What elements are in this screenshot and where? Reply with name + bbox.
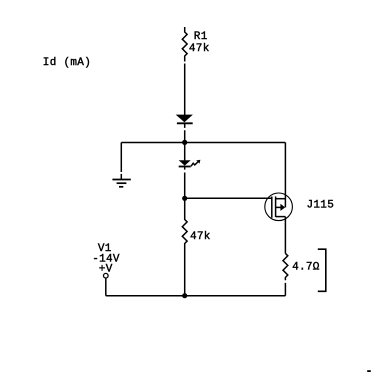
resistor 4.7 ohm <box>283 253 288 295</box>
svg-text:J115: J115 <box>307 200 335 212</box>
label 4.7 ohm <box>292 261 320 273</box>
wire source to 4.7 ohm <box>284 217 286 254</box>
wire gate <box>185 197 272 199</box>
diode D1 <box>176 115 193 124</box>
label Id (mA) <box>43 57 91 69</box>
wire from D1 to top junction <box>184 123 186 142</box>
svg-text:47k: 47k <box>190 231 211 243</box>
LED D2 <box>179 160 201 167</box>
svg-text:47k: 47k <box>189 43 210 55</box>
label 47k of R1 <box>189 43 210 55</box>
label J115 <box>307 200 335 212</box>
wire top horizontal <box>121 142 285 144</box>
wire right vertical drain <box>284 143 286 208</box>
wire from R1 to diode D1 <box>184 64 186 116</box>
wire top junction to LED D2 <box>184 143 186 161</box>
label 47k middle <box>190 231 211 243</box>
bracket marker <box>318 249 326 291</box>
node gate junction <box>182 196 187 201</box>
label R1 <box>194 31 208 43</box>
wire bottom rail <box>106 295 286 297</box>
node top junction <box>182 140 187 145</box>
source V1 labels <box>98 243 112 255</box>
wire to ground <box>120 143 122 180</box>
transistor J115 <box>265 193 293 221</box>
svg-text:4.7Ω: 4.7Ω <box>292 261 320 273</box>
resistor R1 <box>182 27 187 62</box>
source V1 terminal <box>104 273 109 295</box>
ground <box>112 180 130 187</box>
svg-text:R1: R1 <box>194 31 208 43</box>
wire D2 to gate junction <box>184 167 186 199</box>
svg-text:Id (mA): Id (mA) <box>43 57 91 69</box>
resistor 47k middle <box>182 198 187 295</box>
corner mark <box>367 370 371 372</box>
node bottom junction <box>182 293 187 298</box>
